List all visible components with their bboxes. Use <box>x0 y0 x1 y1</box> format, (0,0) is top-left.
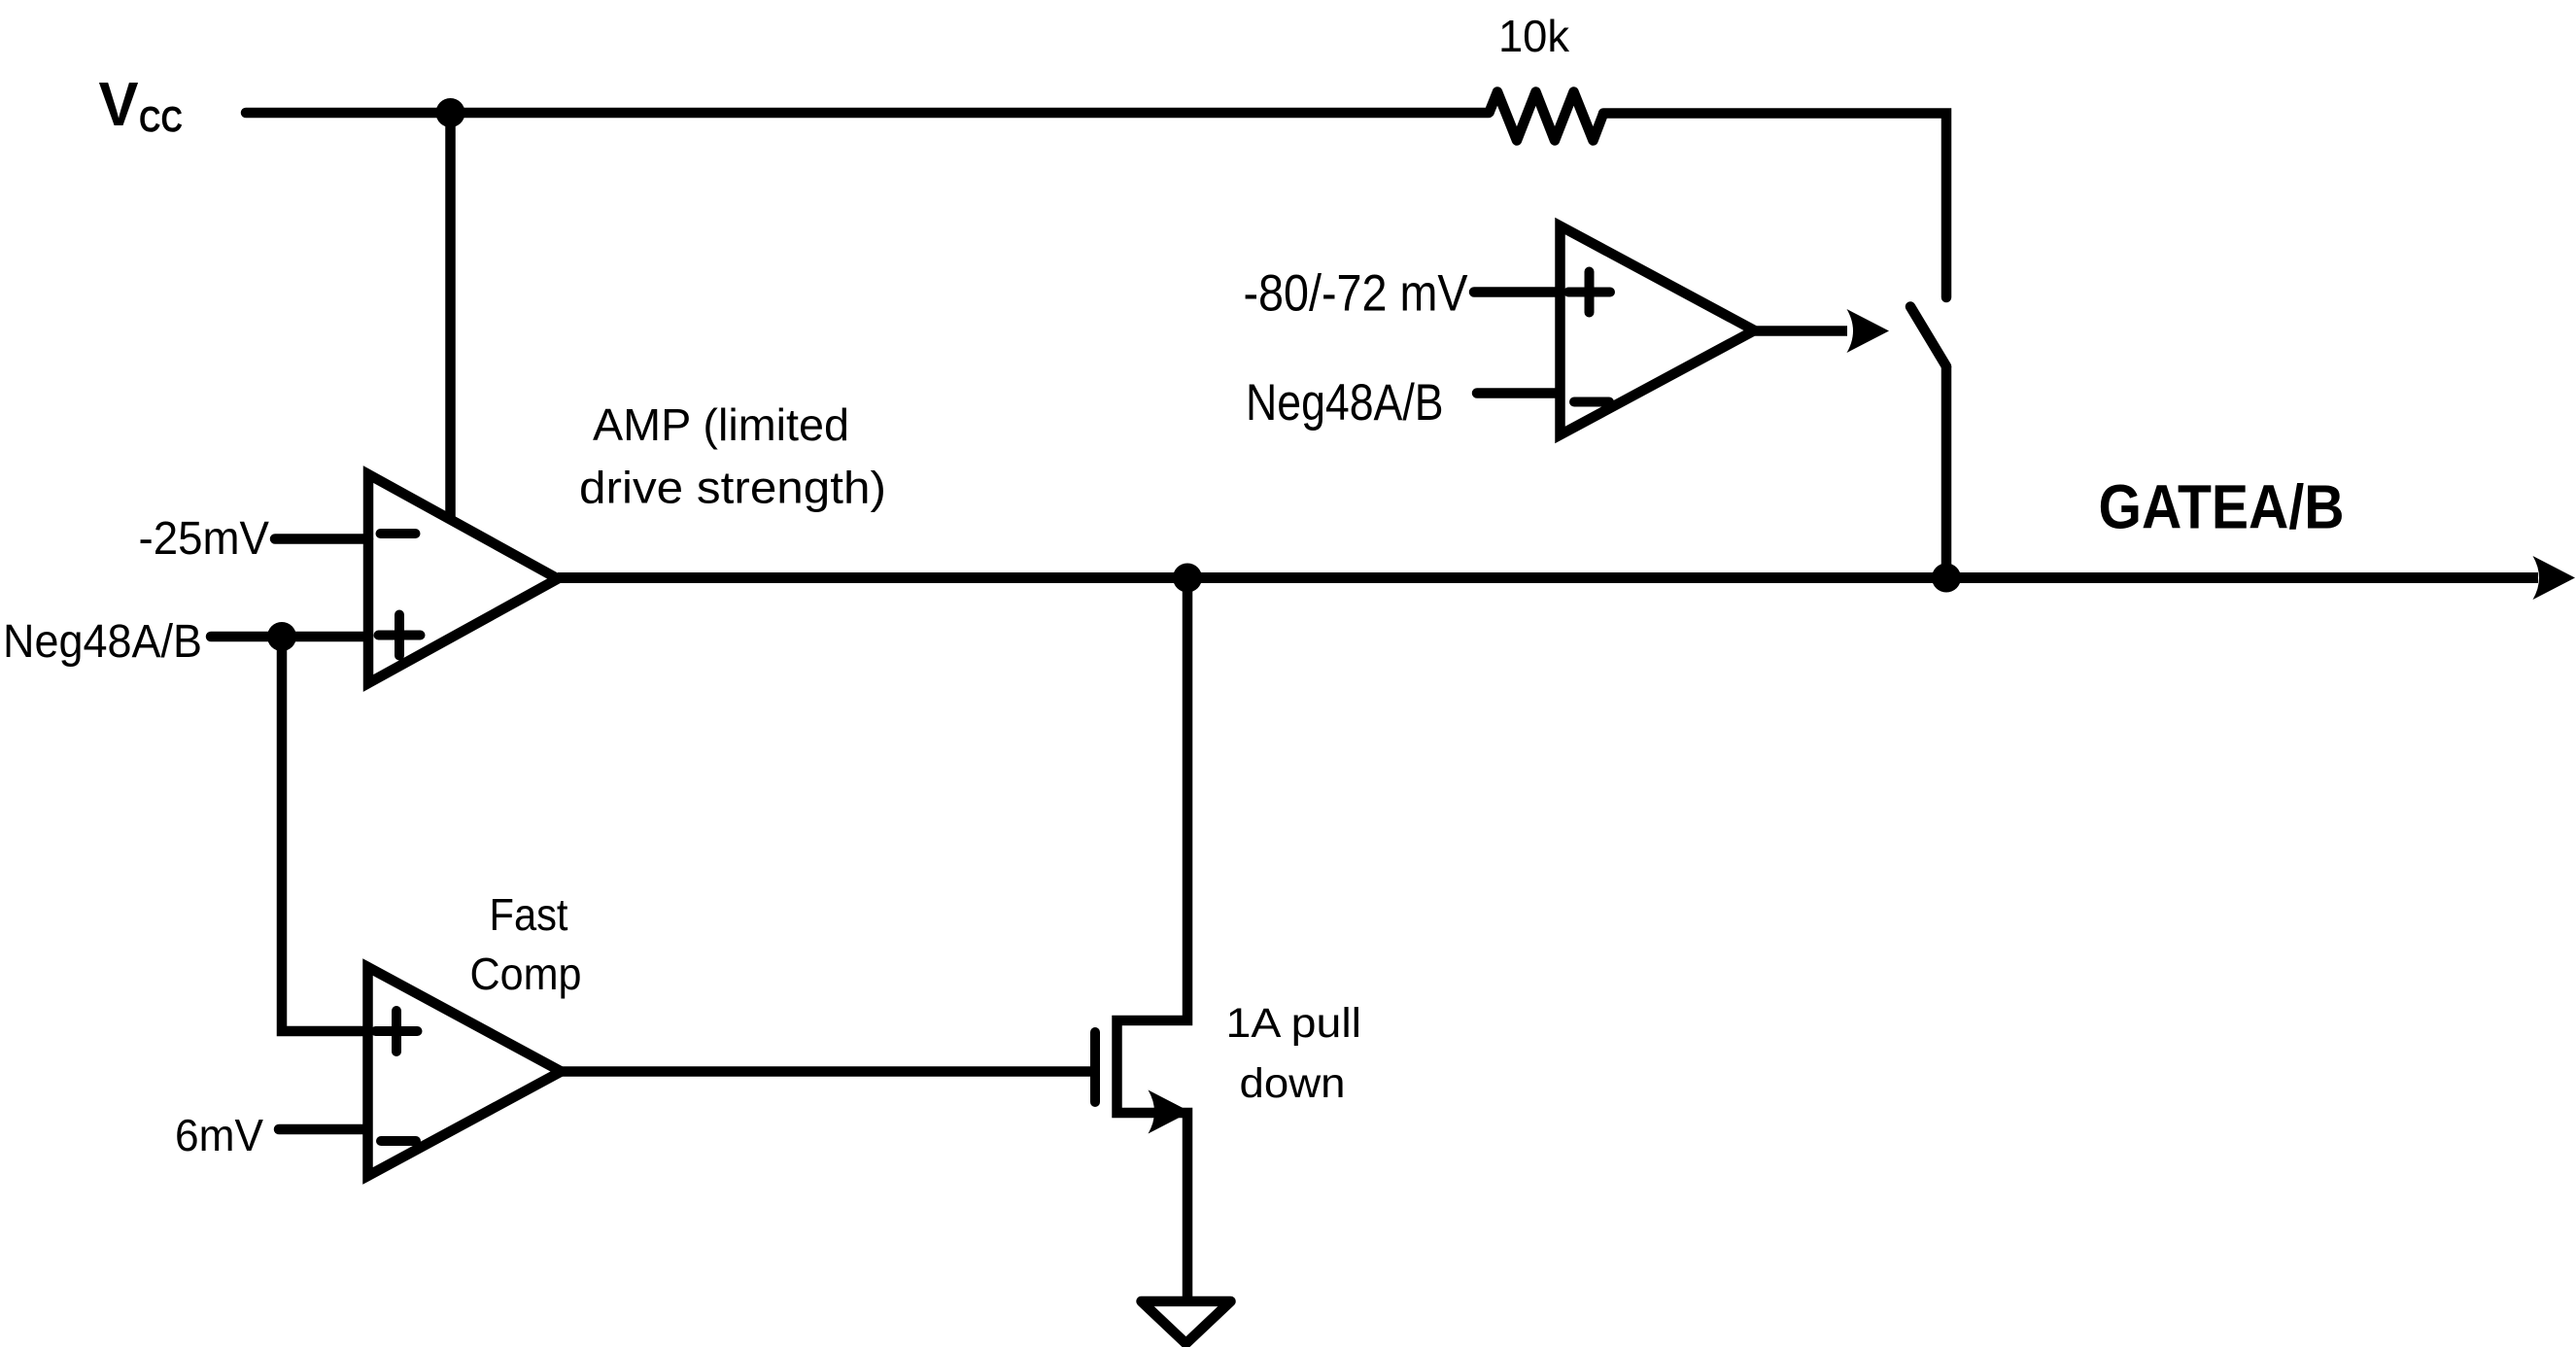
wire -25mV to U1 inverting input <box>275 534 368 544</box>
wire Vcc horizontal <box>246 108 1489 119</box>
resistor R1 10k <box>1489 92 1603 141</box>
svg-text:Neg48A/B: Neg48A/B <box>3 616 202 668</box>
svg-text:AMP (limited: AMP (limited <box>593 399 849 450</box>
junction node M1 drain branch <box>1173 564 1202 593</box>
wire U3 output <box>1755 326 1848 336</box>
U1 non-inverting input symbol <box>379 615 421 656</box>
svg-text:-80/-72 mV: -80/-72 mV <box>1244 265 1469 323</box>
wire Neg48A/B down to U2 non-inverting input <box>282 637 367 1031</box>
svg-text:Fast: Fast <box>490 889 568 940</box>
svg-text:GATEA/B: GATEA/B <box>2099 472 2345 542</box>
wire Vcc down to op-amp U1 <box>445 113 456 520</box>
svg-text:Comp: Comp <box>470 949 582 999</box>
U3 inverting input symbol <box>1574 397 1609 407</box>
transistor M1 1A pull down : drain lead, channel, source lead, source down wire <box>1117 578 1188 1302</box>
U3 non-inverting input symbol <box>1568 272 1610 313</box>
GATEA/B output arrowhead <box>2533 556 2576 600</box>
svg-text:10k: 10k <box>1498 11 1570 61</box>
op-amp U2 Fast Comp <box>368 967 562 1176</box>
wire 6mV to U2 inverting input <box>279 1124 367 1135</box>
M1 gate bar <box>1090 1032 1100 1102</box>
U3 output arrowhead <box>1847 309 1890 353</box>
svg-text:1A pull: 1A pull <box>1226 1000 1362 1047</box>
svg-text:6mV: 6mV <box>175 1110 263 1160</box>
switch SW1 blade <box>1910 307 1946 367</box>
ground <box>1142 1301 1231 1344</box>
comparator U3 <box>1561 226 1755 435</box>
junction node GATEA/B switch <box>1932 564 1961 593</box>
M1 source arrowhead <box>1149 1090 1191 1134</box>
svg-text:down: down <box>1240 1060 1346 1107</box>
main output wire U1 to GATEA/B arrow <box>558 572 2538 583</box>
svg-text:V: V <box>99 69 139 139</box>
power label Vcc <box>99 69 184 140</box>
wire Neg48A/B to U3 inverting input <box>1477 388 1560 398</box>
wire -80/-72 mV to U3 non-inverting input <box>1474 287 1560 297</box>
wire U2 output to M1 gate <box>562 1066 1092 1077</box>
svg-text:CC: CC <box>139 100 183 140</box>
junction node Neg48A/B <box>267 622 296 651</box>
U2 non-inverting input symbol <box>376 1011 418 1052</box>
op-amp U1 AMP (limited drive strength) <box>368 474 558 683</box>
U1 inverting input symbol <box>381 529 416 538</box>
U2 inverting input symbol <box>381 1136 416 1146</box>
wire resistor to switch fixed contact <box>1603 114 1946 298</box>
svg-text:-25mV: -25mV <box>139 513 270 565</box>
svg-text:drive strength): drive strength) <box>579 463 886 513</box>
wire Neg48A/B to U1 non-inverting input <box>211 632 368 642</box>
svg-text:Neg48A/B: Neg48A/B <box>1246 374 1444 432</box>
junction node Vcc supply <box>436 98 465 127</box>
wire switch to GATEA/B node <box>1941 366 1952 578</box>
